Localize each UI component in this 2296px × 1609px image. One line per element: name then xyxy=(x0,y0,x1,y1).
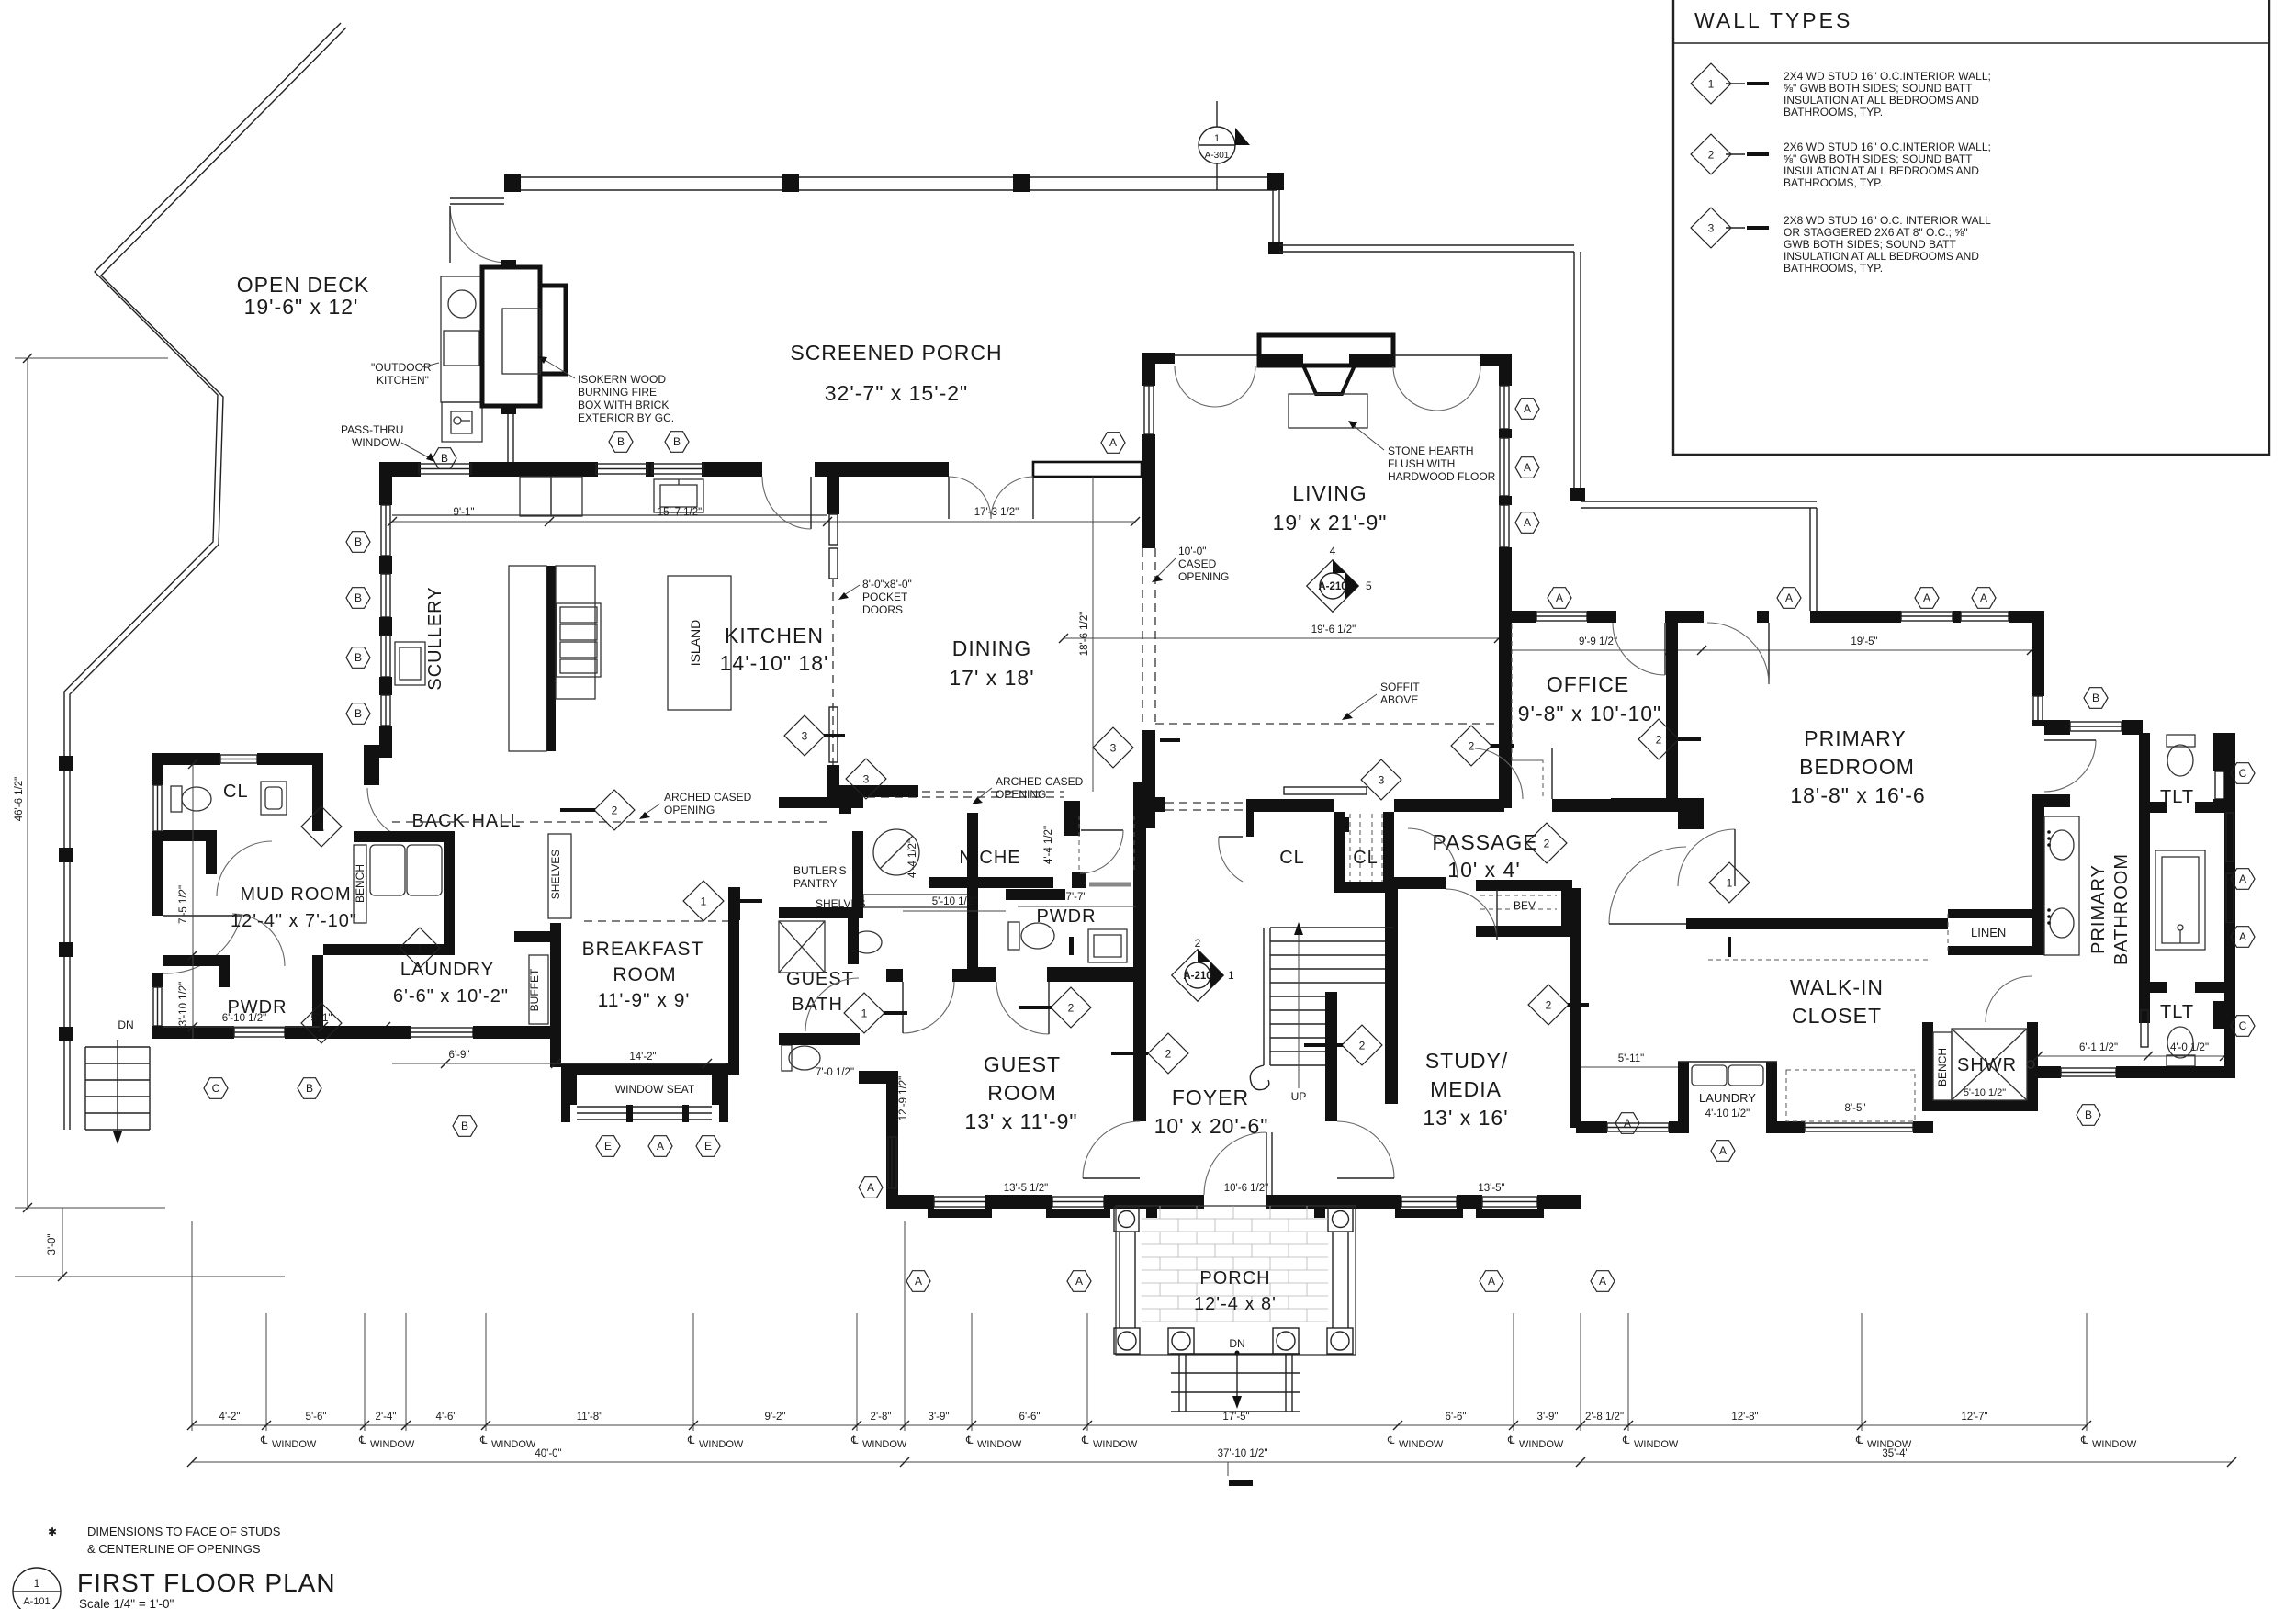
front wall: study section xyxy=(1325,1195,1401,1209)
closet south wall xyxy=(1576,1121,1607,1133)
window seat bay xyxy=(561,1075,577,1122)
svg-text:C: C xyxy=(2239,767,2247,780)
tub alcove xyxy=(2139,813,2150,855)
office east wall / primary west xyxy=(1666,621,1678,798)
svg-text:℄: ℄ xyxy=(1507,1435,1515,1446)
svg-text:WINDOW: WINDOW xyxy=(370,1439,415,1450)
svg-text:2X6 WD STUD 16" O.C.INTERIOR W: 2X6 WD STUD 16" O.C.INTERIOR WALL; xyxy=(1784,141,1991,153)
svg-text:DOORS: DOORS xyxy=(862,603,903,616)
svg-text:ROOM: ROOM xyxy=(613,964,676,985)
svg-text:OR STAGGERED 2X6 AT 8" O.C.; ⅝: OR STAGGERED 2X6 AT 8" O.C.; ⅝" xyxy=(1784,226,1968,239)
svg-text:GUEST: GUEST xyxy=(786,969,854,989)
svg-text:SCREENED PORCH: SCREENED PORCH xyxy=(790,341,1002,365)
svg-text:WINDOW: WINDOW xyxy=(1399,1439,1444,1450)
living west wall xyxy=(1142,353,1175,386)
kitchen/dining pocket door wall xyxy=(827,472,839,514)
svg-text:A: A xyxy=(867,1181,874,1194)
svg-text:BATHROOMS, TYP.: BATHROOMS, TYP. xyxy=(1784,176,1883,189)
front wall: guest room section xyxy=(886,1195,934,1209)
svg-text:E: E xyxy=(604,1140,612,1153)
guest room north wall xyxy=(952,969,996,982)
svg-text:WINDOW: WINDOW xyxy=(977,1439,1022,1450)
study east wall xyxy=(1570,888,1581,1128)
svg-text:1: 1 xyxy=(1214,133,1220,144)
svg-text:5'-10 1/2": 5'-10 1/2" xyxy=(1964,1087,2006,1098)
svg-text:BATHROOMS, TYP.: BATHROOMS, TYP. xyxy=(1784,106,1883,118)
svg-text:3: 3 xyxy=(863,773,870,786)
svg-text:KITCHEN: KITCHEN xyxy=(725,624,824,647)
mud entry door from deck xyxy=(163,915,242,917)
svg-text:A: A xyxy=(1488,1275,1495,1288)
deck rail posts xyxy=(59,756,73,771)
svg-text:19'-6 1/2": 19'-6 1/2" xyxy=(1311,624,1356,636)
svg-text:FIRST FLOOR PLAN: FIRST FLOOR PLAN xyxy=(77,1569,336,1597)
svg-text:PRIMARY: PRIMARY xyxy=(1804,726,1906,750)
svg-text:BOX WITH BRICK: BOX WITH BRICK xyxy=(578,399,669,411)
kitchen counter along north wall xyxy=(392,514,827,516)
svg-text:℄: ℄ xyxy=(1855,1435,1863,1446)
svg-text:HARDWOOD FLOOR: HARDWOOD FLOOR xyxy=(1388,470,1496,483)
svg-text:BREAKFAST: BREAKFAST xyxy=(582,939,704,960)
svg-text:10' x 20'-6": 10' x 20'-6" xyxy=(1154,1114,1269,1138)
svg-text:1: 1 xyxy=(1727,877,1733,890)
svg-text:19' x 21'-9": 19' x 21'-9" xyxy=(1273,511,1388,534)
svg-text:C: C xyxy=(2239,1019,2247,1032)
svg-text:B: B xyxy=(461,1120,468,1132)
window pass-thru xyxy=(419,464,471,474)
dim 9'-1" / 15'-7 1/2" xyxy=(392,521,1135,523)
svg-text:OFFICE: OFFICE xyxy=(1547,672,1629,696)
svg-text:SHWR: SHWR xyxy=(1957,1055,2017,1075)
svg-text:17'-5": 17'-5" xyxy=(1222,1412,1249,1423)
svg-text:BEDROOM: BEDROOM xyxy=(1799,755,1915,779)
deck-porch gate xyxy=(450,197,504,199)
kitchen north exterior wall xyxy=(379,462,421,477)
svg-text:46'-6 1/2": 46'-6 1/2" xyxy=(14,777,25,821)
svg-text:CL: CL xyxy=(1279,848,1305,868)
dining south piers xyxy=(839,785,918,814)
pwdr east wall xyxy=(312,955,323,1039)
svg-text:3'-9": 3'-9" xyxy=(929,1412,950,1423)
A-210 living marker xyxy=(1307,545,1372,612)
svg-text:19'-6" x 12': 19'-6" x 12' xyxy=(244,295,359,319)
svg-text:MUD ROOM: MUD ROOM xyxy=(240,884,351,905)
svg-text:A: A xyxy=(1980,591,1987,604)
south wall bath wing xyxy=(2038,1066,2061,1078)
svg-text:A: A xyxy=(2239,872,2246,885)
svg-text:LINEN: LINEN xyxy=(1971,926,2006,940)
svg-text:BUFFET: BUFFET xyxy=(528,968,541,1011)
study door arc (foyer SE) xyxy=(1337,1121,1394,1178)
shelf above passage wall xyxy=(1284,787,1367,794)
soffit above dashed + label xyxy=(1155,723,1499,725)
svg-text:9'-2": 9'-2" xyxy=(765,1412,786,1423)
dashed closet rods xyxy=(1786,1070,1915,1121)
svg-text:2'-8": 2'-8" xyxy=(871,1412,892,1423)
svg-text:4'-4 1/2": 4'-4 1/2" xyxy=(1043,826,1054,864)
svg-text:A-301: A-301 xyxy=(1205,151,1230,161)
svg-text:15'-7 1/2": 15'-7 1/2" xyxy=(658,507,702,518)
svg-text:SHELVES: SHELVES xyxy=(549,850,562,899)
porch xyxy=(1114,1206,1356,1412)
svg-text:A: A xyxy=(657,1140,664,1153)
bedroom east wall xyxy=(2032,623,2044,696)
svg-text:WINDOW: WINDOW xyxy=(1634,1439,1679,1450)
outdoor fireplace xyxy=(482,267,540,406)
stairs xyxy=(1264,928,1393,1065)
overall dim line xyxy=(192,1461,2232,1463)
office dashed soffit xyxy=(1512,624,1543,798)
porch steps xyxy=(1171,1354,1300,1412)
svg-text:5: 5 xyxy=(1366,579,1372,592)
office west wall xyxy=(1499,547,1512,808)
svg-text:WINDOW: WINDOW xyxy=(2092,1439,2137,1450)
fireplace living xyxy=(1259,354,1303,366)
north wall office/primary xyxy=(1499,611,1536,623)
svg-text:PANTRY: PANTRY xyxy=(793,877,838,890)
svg-text:DN: DN xyxy=(1229,1337,1244,1350)
svg-text:A: A xyxy=(1624,1117,1631,1130)
svg-text:4'-4 1/2": 4'-4 1/2" xyxy=(907,839,918,878)
svg-text:5'-6": 5'-6" xyxy=(306,1412,327,1423)
svg-text:A: A xyxy=(1075,1275,1083,1288)
pwdr south wall xyxy=(152,1026,234,1039)
svg-text:GUEST: GUEST xyxy=(984,1052,1061,1076)
svg-text:40'-0": 40'-0" xyxy=(535,1448,561,1459)
legend item 2 diamond xyxy=(1691,134,1731,174)
svg-text:13'-5": 13'-5" xyxy=(1478,1183,1504,1194)
svg-text:BATHROOMS, TYP.: BATHROOMS, TYP. xyxy=(1784,262,1883,275)
dining north double doors xyxy=(948,477,950,519)
svg-text:BENCH: BENCH xyxy=(1936,1048,1949,1086)
svg-text:14'-2": 14'-2" xyxy=(629,1052,656,1063)
svg-text:6'-1 1/2": 6'-1 1/2" xyxy=(2079,1042,2118,1053)
mud/pwdr wall xyxy=(163,955,230,987)
legend item 3 diamond xyxy=(1691,208,1731,248)
svg-text:2: 2 xyxy=(1546,999,1552,1012)
svg-text:WINDOW: WINDOW xyxy=(491,1439,536,1450)
mud wing west wall xyxy=(152,753,163,785)
dining west dashed + arched opening dashed xyxy=(839,791,1064,793)
svg-text:WINDOW SEAT: WINDOW SEAT xyxy=(615,1083,695,1096)
primary bedroom S wall / closet N wall xyxy=(1686,918,1948,929)
svg-text:PASS-THRU: PASS-THRU xyxy=(341,423,403,436)
jog east xyxy=(2032,720,2070,735)
svg-text:B: B xyxy=(355,651,362,664)
svg-text:& CENTERLINE OF OPENINGS: & CENTERLINE OF OPENINGS xyxy=(87,1542,261,1556)
svg-text:STUDY/: STUDY/ xyxy=(1425,1049,1508,1073)
svg-text:CL: CL xyxy=(1353,848,1379,868)
living NE corner xyxy=(1480,354,1512,386)
svg-text:4: 4 xyxy=(1330,545,1336,557)
svg-text:INSULATION AT ALL BEDROOMS AND: INSULATION AT ALL BEDROOMS AND xyxy=(1784,164,1979,177)
svg-text:℄: ℄ xyxy=(687,1435,695,1446)
svg-text:A: A xyxy=(1599,1275,1606,1288)
svg-text:FLUSH WITH: FLUSH WITH xyxy=(1388,457,1455,470)
svg-text:12'-4" x 7'-10": 12'-4" x 7'-10" xyxy=(231,911,357,931)
laundry closet xyxy=(1678,1062,1689,1133)
svg-text:A-101: A-101 xyxy=(23,1596,50,1607)
svg-text:PRIMARY: PRIMARY xyxy=(2088,864,2109,954)
svg-text:7'-0 1/2": 7'-0 1/2" xyxy=(816,1067,854,1078)
svg-text:13' x 16': 13' x 16' xyxy=(1423,1106,1508,1130)
gate door arc xyxy=(450,206,507,263)
vanity xyxy=(2044,816,2079,955)
niche circle xyxy=(873,829,919,875)
section marker A-301 xyxy=(1199,101,1250,190)
svg-text:1: 1 xyxy=(701,895,707,908)
CL south wall xyxy=(163,830,217,874)
svg-text:PORCH: PORCH xyxy=(1199,1268,1270,1288)
brick paving xyxy=(1142,1206,1328,1322)
svg-text:3: 3 xyxy=(1110,742,1117,755)
svg-text:℄: ℄ xyxy=(358,1435,366,1446)
svg-text:ISOKERN WOOD: ISOKERN WOOD xyxy=(578,373,666,386)
svg-text:3: 3 xyxy=(1708,222,1715,235)
svg-text:GWB BOTH SIDES; SOUND BATT: GWB BOTH SIDES; SOUND BATT xyxy=(1784,238,1956,251)
svg-text:OPENING: OPENING xyxy=(996,788,1046,801)
svg-text:12'-7": 12'-7" xyxy=(1961,1412,1987,1423)
range xyxy=(557,603,601,677)
laundry room xyxy=(354,831,455,842)
svg-text:℄: ℄ xyxy=(1081,1435,1089,1446)
svg-text:3'-0": 3'-0" xyxy=(47,1234,58,1255)
svg-text:6'-10 1/2": 6'-10 1/2" xyxy=(222,1013,266,1024)
svg-text:DINING: DINING xyxy=(952,636,1032,660)
svg-text:OPENING: OPENING xyxy=(664,804,715,816)
svg-text:9'-1": 9'-1" xyxy=(454,507,475,518)
svg-text:5'-11": 5'-11" xyxy=(1618,1053,1644,1064)
svg-text:MEDIA: MEDIA xyxy=(1430,1077,1502,1101)
svg-text:6'-6": 6'-6" xyxy=(1019,1412,1041,1423)
svg-text:18'-6 1/2": 18'-6 1/2" xyxy=(1079,612,1090,656)
guest room west wall xyxy=(886,1071,898,1200)
svg-text:℄: ℄ xyxy=(965,1435,974,1446)
CL window labels xyxy=(260,1435,2137,1450)
linen closet xyxy=(1948,909,2035,918)
svg-text:WINDOW: WINDOW xyxy=(352,436,400,449)
svg-text:3: 3 xyxy=(1379,774,1385,787)
svg-text:WINDOW: WINDOW xyxy=(1519,1439,1564,1450)
svg-text:9'-8" x 10'-10": 9'-8" x 10'-10" xyxy=(1518,702,1661,726)
svg-text:A: A xyxy=(2239,930,2246,943)
svg-text:A: A xyxy=(1719,1144,1727,1157)
svg-text:12'-9 1/2": 12'-9 1/2" xyxy=(898,1076,909,1120)
svg-text:FOYER: FOYER xyxy=(1172,1086,1249,1109)
svg-text:B: B xyxy=(2092,692,2099,704)
svg-text:BENCH: BENCH xyxy=(354,864,366,903)
svg-text:A: A xyxy=(1524,461,1531,474)
svg-text:⅝" GWB BOTH SIDES; SOUND BATT: ⅝" GWB BOTH SIDES; SOUND BATT xyxy=(1784,152,1973,165)
svg-text:WINDOW: WINDOW xyxy=(862,1439,907,1450)
svg-text:ROOM: ROOM xyxy=(987,1081,1057,1105)
svg-text:DN: DN xyxy=(118,1018,133,1031)
svg-text:18'-8" x 16'-6: 18'-8" x 16'-6 xyxy=(1790,783,1925,807)
svg-text:Scale 1/4" = 1'-0": Scale 1/4" = 1'-0" xyxy=(79,1597,174,1609)
foyer west wall xyxy=(1133,808,1146,1121)
svg-text:4'-6": 4'-6" xyxy=(436,1412,457,1423)
svg-text:B: B xyxy=(355,591,362,604)
svg-text:2: 2 xyxy=(1165,1048,1172,1061)
svg-text:19'-5": 19'-5" xyxy=(1851,636,1877,647)
svg-text:✱: ✱ xyxy=(48,1525,57,1538)
svg-text:WALL TYPES: WALL TYPES xyxy=(1694,8,1852,32)
svg-text:6'-6" x 10'-2": 6'-6" x 10'-2" xyxy=(393,986,509,1007)
window dim row xyxy=(192,1424,2087,1426)
window kitchen sink L xyxy=(596,464,647,474)
svg-text:PWDR: PWDR xyxy=(1036,906,1096,927)
SECTION2 xyxy=(1059,335,1512,828)
svg-text:8'-0"x8'-0": 8'-0"x8'-0" xyxy=(862,578,912,591)
front door xyxy=(1266,1132,1267,1195)
svg-text:ARCHED CASED: ARCHED CASED xyxy=(664,791,752,804)
outdoor kitchen counters xyxy=(441,276,482,402)
svg-text:2: 2 xyxy=(612,804,618,817)
CL east wall xyxy=(312,765,323,831)
svg-text:UP: UP xyxy=(1291,1090,1307,1103)
svg-text:2: 2 xyxy=(1359,1040,1366,1052)
vanity wall xyxy=(2032,794,2044,955)
svg-text:℄: ℄ xyxy=(479,1435,488,1446)
svg-text:A: A xyxy=(1109,436,1117,449)
A-210 foyer marker xyxy=(1172,937,1234,1001)
svg-text:10'-6 1/2": 10'-6 1/2" xyxy=(1224,1183,1268,1194)
svg-text:12'-8": 12'-8" xyxy=(1731,1412,1758,1423)
porch east rail xyxy=(1272,190,1274,246)
svg-text:BEV: BEV xyxy=(1514,899,1536,912)
svg-text:SOFFIT: SOFFIT xyxy=(1380,681,1420,693)
svg-text:WINDOW: WINDOW xyxy=(1093,1439,1138,1450)
svg-text:1: 1 xyxy=(1708,78,1715,91)
porch columns xyxy=(1114,1207,1353,1232)
SECTION3 xyxy=(859,808,1581,1412)
dim 5'-11" / 8'-5" xyxy=(1581,1066,1678,1068)
svg-text:1: 1 xyxy=(861,1007,868,1020)
door passage->office xyxy=(1551,748,1553,799)
svg-text:CLOSET: CLOSET xyxy=(1792,1004,1882,1028)
svg-text:2: 2 xyxy=(1469,740,1475,753)
primary door arc xyxy=(1768,623,1770,684)
svg-text:1: 1 xyxy=(34,1577,40,1590)
svg-text:BURNING FIRE: BURNING FIRE xyxy=(578,386,657,399)
svg-text:KITCHEN": KITCHEN" xyxy=(377,374,429,387)
svg-text:2: 2 xyxy=(1708,149,1715,162)
living east wall with windows xyxy=(1500,386,1509,429)
svg-text:11'-8": 11'-8" xyxy=(577,1412,602,1423)
svg-text:3'-10 1/2": 3'-10 1/2" xyxy=(178,982,189,1026)
scullery west exterior wall with windows xyxy=(379,472,392,505)
svg-text:EXTERIOR BY GC.: EXTERIOR BY GC. xyxy=(578,411,674,424)
svg-text:OPENING: OPENING xyxy=(1178,570,1229,583)
scullery sink xyxy=(395,642,425,685)
svg-text:10'-0": 10'-0" xyxy=(1178,545,1207,557)
svg-text:BACK HALL: BACK HALL xyxy=(411,811,521,831)
svg-text:17'-3 1/2": 17'-3 1/2" xyxy=(974,507,1019,518)
svg-text:10' x 4': 10' x 4' xyxy=(1447,858,1520,882)
svg-text:2: 2 xyxy=(1544,838,1550,850)
svg-text:℄: ℄ xyxy=(260,1435,268,1446)
breakfast room xyxy=(550,923,561,1067)
rail posts xyxy=(504,174,521,192)
svg-text:TLT: TLT xyxy=(2160,787,2194,807)
svg-text:B: B xyxy=(355,707,362,720)
svg-text:DIMENSIONS TO FACE OF STUDS: DIMENSIONS TO FACE OF STUDS xyxy=(87,1525,281,1538)
19'-6 1/2 dim xyxy=(1064,637,1499,639)
svg-text:INSULATION AT ALL BEDROOMS AND: INSULATION AT ALL BEDROOMS AND xyxy=(1784,94,1979,107)
svg-text:6'-6": 6'-6" xyxy=(1446,1412,1467,1423)
svg-text:WALK-IN: WALK-IN xyxy=(1790,975,1884,999)
svg-text:A-210: A-210 xyxy=(1183,971,1211,982)
svg-text:C: C xyxy=(212,1082,220,1095)
svg-text:POCKET: POCKET xyxy=(862,591,908,603)
svg-text:OPEN DECK: OPEN DECK xyxy=(237,273,369,297)
svg-text:2: 2 xyxy=(1656,734,1662,747)
south wall laundry->breakfast xyxy=(323,1026,411,1039)
svg-text:4'-0 1/2": 4'-0 1/2" xyxy=(2170,1042,2209,1053)
svg-text:B: B xyxy=(673,435,681,448)
CL fixtures xyxy=(171,786,182,812)
svg-text:⅝" GWB BOTH SIDES; SOUND BATT: ⅝" GWB BOTH SIDES; SOUND BATT xyxy=(1784,82,1973,95)
svg-text:B: B xyxy=(441,452,448,465)
door to passage from stairhall xyxy=(1408,828,1458,878)
svg-text:SCULLERY: SCULLERY xyxy=(425,586,445,690)
svg-text:B: B xyxy=(355,535,362,548)
svg-text:1: 1 xyxy=(319,1018,325,1030)
hexagon wall markers xyxy=(433,448,456,469)
svg-text:14'-10" 18': 14'-10" 18' xyxy=(720,651,829,675)
svg-text:32'-7" x 15'-2": 32'-7" x 15'-2" xyxy=(825,381,968,405)
legend box xyxy=(1673,0,2269,455)
svg-text:13' x 11'-9": 13' x 11'-9" xyxy=(964,1109,1077,1133)
CL top wall xyxy=(152,753,220,765)
front wall: door bay xyxy=(1146,1195,1204,1218)
svg-text:4'-2": 4'-2" xyxy=(219,1412,241,1423)
dims right of shower xyxy=(2038,1055,2224,1057)
svg-text:3: 3 xyxy=(802,730,808,743)
svg-text:LIVING: LIVING xyxy=(1292,481,1367,505)
svg-text:2'-4": 2'-4" xyxy=(376,1412,397,1423)
casement window L xyxy=(1175,354,1259,356)
svg-text:ISLAND: ISLAND xyxy=(688,620,703,667)
svg-text:B: B xyxy=(306,1082,313,1095)
porch door into kitchen hall xyxy=(810,477,812,529)
porch top rail xyxy=(504,176,1277,178)
svg-text:2: 2 xyxy=(1195,937,1201,950)
svg-text:WINDOW: WINDOW xyxy=(699,1439,744,1450)
svg-text:℄: ℄ xyxy=(1622,1435,1630,1446)
svg-text:2X4 WD STUD 16" O.C.INTERIOR W: 2X4 WD STUD 16" O.C.INTERIOR WALL; xyxy=(1784,70,1991,83)
TLT2 room xyxy=(2139,982,2167,993)
svg-text:LAUNDRY: LAUNDRY xyxy=(1699,1091,1756,1105)
deck rail outline xyxy=(64,23,341,1130)
svg-text:PASSAGE: PASSAGE xyxy=(1432,830,1537,854)
study west wall xyxy=(1385,877,1398,1104)
svg-text:5'-10 1/2": 5'-10 1/2" xyxy=(932,896,976,907)
office door arc xyxy=(1664,623,1666,675)
door bedroom->bath xyxy=(2044,740,2096,792)
svg-text:A-210: A-210 xyxy=(1318,581,1346,592)
extension lines xyxy=(192,1221,2087,1431)
svg-text:A: A xyxy=(1524,516,1531,529)
back hall dashed opening xyxy=(392,821,827,823)
foyer east wall xyxy=(1325,992,1337,1121)
svg-text:1: 1 xyxy=(319,821,325,834)
svg-text:8'-5": 8'-5" xyxy=(1845,1103,1866,1114)
svg-text:4'-10 1/2": 4'-10 1/2" xyxy=(1705,1108,1750,1120)
back hall west jog xyxy=(364,745,392,785)
island xyxy=(668,576,731,710)
scullery/kitchen divider wall + counters xyxy=(546,566,556,751)
